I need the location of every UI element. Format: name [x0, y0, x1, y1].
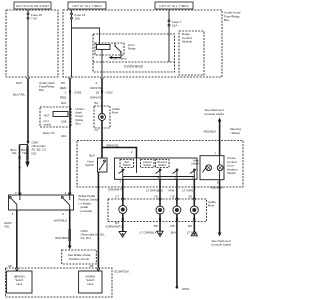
svg-text:Console Lights: Console Lights: [204, 112, 224, 116]
svg-text:Switch: Switch: [158, 163, 166, 167]
svg-text:LT GRN/BLK: LT GRN/BLK: [140, 230, 157, 234]
svg-text:See Horns: See Horns: [113, 57, 128, 61]
svg-text:Wheel: Wheel: [231, 131, 240, 135]
svg-text:BLK: BLK: [89, 154, 95, 158]
svg-text:N27: N27: [44, 114, 50, 118]
svg-text:GRN/YEL: GRN/YEL: [106, 143, 120, 147]
svg-text:PNK: PNK: [169, 188, 175, 192]
svg-text:A8: A8: [8, 264, 12, 268]
svg-text:C362: C362: [106, 91, 114, 95]
svg-text:Switch: Switch: [85, 163, 94, 167]
svg-text:WHT/BLK: WHT/BLK: [55, 236, 68, 240]
svg-text:C8: C8: [154, 195, 158, 199]
svg-text:N23: N23: [16, 81, 22, 85]
svg-text:HOT IN IGN OR START: HOT IN IGN OR START: [16, 4, 49, 8]
svg-text:ECM/PCM: ECM/PCM: [115, 270, 130, 274]
svg-text:Module: Module: [182, 40, 192, 44]
svg-text:C7: C7: [115, 195, 119, 199]
svg-text:G501: G501: [182, 287, 190, 291]
svg-text:A10: A10: [61, 134, 67, 138]
svg-text:Switch: Switch: [227, 171, 236, 175]
svg-text:Input: Input: [16, 282, 22, 286]
svg-text:Early '94: Early '94: [43, 131, 55, 135]
svg-text:D8: D8: [154, 224, 158, 228]
svg-text:7.5A: 7.5A: [31, 17, 37, 21]
svg-text:used): used): [44, 122, 52, 126]
svg-text:Switch: Switch: [86, 278, 94, 282]
svg-text:18: 18: [96, 91, 100, 95]
svg-text:Box: Box: [224, 18, 230, 22]
svg-text:Switch: Switch: [15, 278, 23, 282]
svg-text:C1, D1): C1, D1): [81, 236, 91, 240]
svg-text:YEL: YEL: [4, 225, 10, 229]
svg-text:D8: D8: [171, 224, 175, 228]
svg-text:Input: Input: [87, 282, 93, 286]
svg-text:pressed): pressed): [81, 209, 93, 213]
svg-text:RED: RED: [60, 86, 67, 90]
svg-text:WHT/BLK: WHT/BLK: [54, 218, 67, 222]
svg-text:C8: C8: [171, 195, 175, 199]
svg-text:Box: Box: [76, 121, 82, 125]
svg-text:HOT AT ALL TIMES: HOT AT ALL TIMES: [73, 4, 102, 8]
svg-text:LT GRN/BLK: LT GRN/BLK: [146, 188, 163, 192]
svg-text:C363: C363: [74, 91, 82, 95]
svg-text:X28: X28: [61, 119, 67, 123]
svg-text:HOT AT ALL TIMES: HOT AT ALL TIMES: [160, 4, 189, 8]
svg-text:15A: 15A: [172, 24, 177, 28]
svg-text:YEL: YEL: [12, 151, 18, 155]
svg-text:C8: C8: [188, 195, 192, 199]
svg-text:B1: B1: [95, 101, 99, 105]
svg-text:Control Block: Control Block: [124, 65, 143, 69]
svg-text:D2): D2): [32, 151, 37, 155]
svg-text:(GRN/WHT): (GRN/WHT): [106, 225, 122, 229]
svg-text:RED/BLK: RED/BLK: [211, 186, 224, 190]
svg-text:A8: A8: [90, 264, 94, 268]
svg-text:YEL: YEL: [22, 151, 28, 155]
svg-text:N21: N21: [61, 101, 67, 105]
svg-text:BLK: BLK: [171, 230, 177, 234]
svg-text:D9: D9: [61, 81, 65, 85]
svg-text:Switch: Switch: [123, 163, 131, 167]
svg-text:D8: D8: [188, 224, 192, 228]
svg-text:BLK/YEL: BLK/YEL: [13, 93, 26, 97]
svg-text:RED: RED: [60, 95, 67, 99]
svg-text:Relay: Relay: [128, 47, 136, 51]
svg-text:Console Lights: Console Lights: [211, 243, 231, 247]
svg-text:GRN/WHT: GRN/WHT: [108, 187, 122, 191]
svg-text:RED/BLK: RED/BLK: [204, 130, 217, 134]
svg-text:Switch: Switch: [143, 163, 151, 167]
svg-text:15A: 15A: [75, 17, 80, 21]
svg-text:(BRAKE): (BRAKE): [14, 275, 25, 279]
svg-text:GRN/YEL: GRN/YEL: [90, 95, 104, 99]
svg-text:Position Circuit: Position Circuit: [69, 257, 89, 261]
svg-text:Reel: Reel: [112, 111, 119, 115]
svg-text:Switch: Switch: [191, 162, 199, 166]
svg-text:Reel: Reel: [208, 204, 215, 208]
svg-text:C1: C1: [95, 128, 99, 132]
svg-text:GRN/YEL: GRN/YEL: [90, 86, 104, 90]
svg-text:LT GRN: LT GRN: [182, 188, 193, 192]
svg-text:(HORN): (HORN): [85, 275, 95, 279]
svg-text:Box: Box: [39, 88, 45, 92]
